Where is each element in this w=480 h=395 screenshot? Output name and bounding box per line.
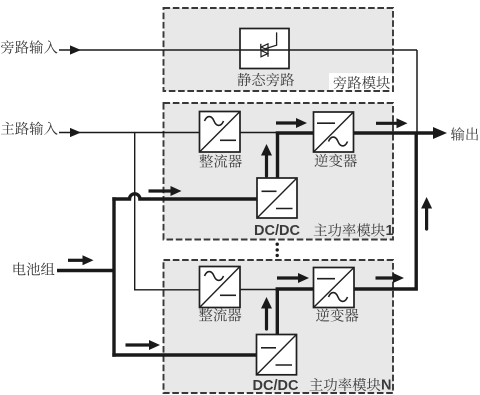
label 静态旁路 (static bypass): [238, 73, 295, 86]
arrowhead on bypass input wire: [70, 45, 81, 54]
inverter 逆变器 (module N): [314, 268, 355, 308]
label 整流器 rectifier module N: [199, 308, 241, 321]
wire: battery branch to DC/DC 1 with hop over mains branch (thick): [112, 194, 257, 199]
svg-text:N: N: [381, 378, 391, 394]
flow arrow: DC/DC N up into bus: [265, 307, 268, 329]
flow arrow: bus into inverter 1: [276, 121, 298, 124]
label 整流器 rectifier module 1: [199, 154, 241, 167]
wire: bypass vertical drop at right: [416, 50, 418, 133]
label 输出 (output): [451, 127, 478, 140]
wire: battery vertical bus (thick): [112, 197, 115, 356]
main power module 1 dashed container 主功率模块1: [164, 103, 394, 240]
flow arrow: battery output: [68, 259, 84, 262]
wire: rectifier 1 output to DC bus junction: [240, 132, 277, 134]
label 电池组 (battery): [14, 262, 55, 275]
wire: mains branch down to rectifier N: [135, 133, 200, 290]
wire: mains input line to rectifier 1: [59, 132, 200, 134]
wire: inverter 1 output to output arrow (thick): [354, 131, 435, 134]
label 旁路输入 (bypass input): [1, 40, 58, 54]
ellipsis between modules: [276, 243, 279, 258]
svg-text:DC/DC: DC/DC: [254, 223, 300, 239]
static bypass switch box 静态旁路: [240, 29, 289, 69]
flow arrow: inverter 1 output: [376, 122, 398, 125]
flow arrow: bus into inverter N: [277, 276, 300, 279]
wire: rectifier N output to DC bus junction N: [240, 289, 277, 291]
flow arrow: DC/DC 1 up into bus: [265, 154, 268, 176]
rectifier 整流器 (module N): [200, 267, 241, 308]
wire: inverter N output up to output line (thick): [354, 133, 416, 289]
inverter 逆变器 (module 1): [314, 112, 354, 152]
DC/DC converter (module N): [257, 335, 297, 375]
svg-text:DC/DC: DC/DC: [253, 378, 299, 394]
label 旁路模块 (bypass module): [334, 76, 390, 89]
flow arrow: battery into module 1: [149, 189, 173, 192]
wire: DC/DC 1 riser to bus (thick): [276, 132, 279, 179]
wire: bypass input line to static bypass and on to right side: [59, 49, 417, 51]
wire: battery feed 电池组 (thick): [57, 269, 114, 272]
wire: DC/DC N riser to bus (thick): [276, 288, 279, 335]
label 主路输入 (mains input): [1, 122, 58, 135]
main power module N dashed container 主功率模块N: [164, 260, 394, 393]
wire: battery branch to DC/DC N (thick): [112, 353, 256, 356]
wire: DC bus junction N to inverter N (thick): [276, 287, 314, 290]
label 逆变器 inverter module N: [316, 309, 358, 322]
wire: DC bus junction to inverter 1 (thick): [276, 131, 314, 134]
DC/DC converter (module 1): [257, 178, 297, 218]
flow arrow: battery into module N: [126, 343, 151, 346]
rectifier R1 整流器 (module 1): [200, 112, 241, 153]
label 主功率模块1: [314, 223, 385, 236]
flow arrow: inverter N output: [376, 276, 395, 279]
label 主功率模块N: [310, 378, 381, 391]
flow arrow: module N output up to output line: [425, 207, 428, 229]
arrowhead: output 输出: [433, 127, 447, 139]
svg-text:1: 1: [386, 223, 394, 239]
arrowhead on mains input wire: [70, 128, 81, 137]
label 逆变器 inverter module 1: [315, 154, 357, 167]
bypass module dashed container 旁路模块: [164, 8, 394, 91]
